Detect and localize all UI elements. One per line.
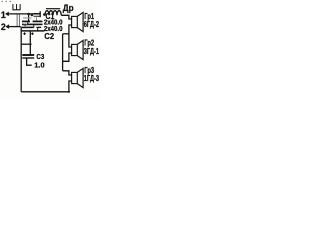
wire: choke to speaker Gr1	[61, 15, 71, 19]
wire: rail down to node C	[29, 31, 31, 44]
connector designator "Ш"	[12, 4, 20, 10]
capacitor C3 top plate	[22, 54, 34, 56]
wire: bottom bus	[21, 91, 69, 93]
wire: C3 bottom lead	[27, 58, 32, 65]
capacitor C2 plate bar lower	[22, 26, 33, 28]
capacitor C1 faint upper plate	[23, 17, 32, 19]
stub C1 plates link	[27, 22, 29, 24]
wire: stub from top wire to C1 plate	[28, 14, 30, 21]
inductor Dr (choke) winding	[45, 11, 61, 16]
capacitor C2 plate bar lower right	[36, 26, 41, 28]
svg-text:1.0: 1.0	[34, 60, 44, 69]
wire: to speaker Gr2 top	[69, 34, 72, 47]
stub C2 plate to bottom wire	[33, 24, 35, 28]
junction dot at bus corner	[68, 91, 70, 93]
junction dot at choke input	[43, 13, 46, 16]
polarity plus below rail left	[23, 32, 26, 35]
capacitor C1 electrolytic box on top wire	[34, 11, 41, 17]
capacitor C3 bottom plate	[22, 57, 34, 59]
svg-text:Др: Др	[63, 3, 74, 13]
wire: node C down to C3	[29, 44, 31, 54]
stub C2 lower plate to rail	[37, 28, 39, 30]
loudspeaker Gr3 symbol	[72, 68, 84, 87]
connector pin 1 arrow	[5, 12, 40, 17]
svg-text:3ГД-1: 3ГД-1	[84, 47, 100, 56]
wire: node B vertical drop	[62, 34, 64, 71]
wire: Gr2 bottom lead	[63, 53, 72, 61]
svg-text:1ГД-3: 1ГД-3	[84, 74, 100, 83]
svg-text:1: 1	[1, 10, 6, 20]
wire: capacitor bottom rail	[21, 30, 45, 32]
capacitor C1 plate bar top left	[22, 20, 30, 22]
polarity plus below rail right	[31, 32, 34, 35]
wire: Gr3 bottom lead	[69, 81, 72, 92]
svg-text:6ГД-2: 6ГД-2	[84, 20, 100, 29]
svg-text:Гр2: Гр2	[84, 37, 94, 47]
inductor Dr core line	[46, 8, 60, 10]
loudspeaker Gr1 symbol	[72, 12, 84, 31]
svg-text:С2: С2	[44, 32, 54, 41]
connector pin 2 arrow	[5, 24, 20, 29]
wire: Gr1 bottom lead	[69, 25, 72, 34]
capacitor C2 plate bar middle	[27, 23, 43, 25]
svg-text:2: 2	[1, 22, 6, 32]
loudspeaker Gr2 symbol	[72, 40, 84, 59]
capacitor C1 plate bar middle left	[22, 23, 24, 25]
junction dot before electrolytic box	[31, 13, 34, 16]
polarity plus between C1 plates	[24, 24, 27, 27]
junction dot on top wire	[27, 13, 30, 16]
connector contact lines	[17, 14, 19, 26]
capacitor C2 electrolytic stub	[36, 16, 38, 20]
capacitor C1 plate bar top right	[33, 20, 43, 22]
wire: node C horizontal to return	[21, 43, 31, 45]
wire: return vertical	[20, 27, 22, 92]
wire: node B horizontal	[63, 33, 69, 35]
wire: to speaker Gr3 top	[63, 71, 72, 75]
scan speck dots (cropped text remnant)	[2, 1, 11, 2]
